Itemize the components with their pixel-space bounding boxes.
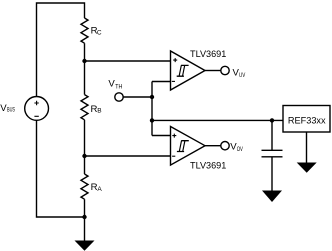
wire U2 output: [205, 145, 221, 147]
U2 plus input sign: [172, 134, 176, 138]
U2 minus input sign: [172, 155, 175, 157]
wire to U2 plus input: [152, 135, 171, 137]
svg-text:TLV3691: TLV3691: [190, 49, 226, 60]
resistor RA zigzag: [81, 174, 88, 199]
junction node A: [82, 59, 86, 63]
svg-text:A: A: [97, 186, 102, 193]
junction node C: [82, 215, 86, 219]
svg-text:TLV3691: TLV3691: [190, 161, 226, 172]
VBUS minus sign: [34, 115, 38, 117]
wire VTH circle to vertical: [123, 96, 152, 98]
VOV output terminal circle: [221, 142, 229, 150]
U1 minus input sign: [172, 80, 175, 82]
ground divider: [75, 241, 95, 251]
junction node B: [82, 154, 86, 158]
svg-text:TH: TH: [115, 83, 122, 90]
junction VTH node: [150, 95, 154, 99]
voltage source VBUS: [25, 97, 49, 121]
VBUS plus sign: [34, 101, 38, 105]
wire RC to RB: [84, 43, 86, 94]
svg-text:REF33xx: REF33xx: [288, 115, 326, 126]
wire to U1 minus input: [152, 81, 171, 83]
wire node to REF33xx input: [152, 119, 283, 121]
wire node A to U1 plus input: [85, 60, 171, 62]
VTH terminal circle: [115, 93, 123, 101]
wire RA to ground: [84, 199, 86, 240]
U1 hysteresis symbol: [177, 65, 189, 76]
resistor RB zigzag: [81, 95, 88, 120]
wire capacitor to ground: [271, 157, 273, 191]
REF33xx box: [283, 106, 330, 133]
junction capacitor node: [270, 118, 274, 122]
op-amp U2 TLV3691 triangle: [171, 127, 206, 166]
VUV output terminal circle: [221, 66, 229, 74]
svg-text:BUS: BUS: [7, 107, 15, 114]
wire node B to U2 minus input: [85, 155, 171, 157]
wire left vertical bottom: [37, 120, 85, 217]
ground capacitor: [262, 191, 282, 203]
wire U1 output: [205, 70, 221, 72]
svg-text:B: B: [97, 108, 101, 115]
svg-text:UV: UV: [239, 72, 246, 79]
wire RB to RA: [84, 120, 86, 174]
capacitor C1 plates: [262, 149, 283, 151]
wire top horizontal: [37, 3, 85, 97]
ground REF33xx: [297, 163, 317, 173]
U1 plus input sign: [173, 58, 177, 62]
svg-text:OV: OV: [237, 146, 244, 153]
svg-text:C: C: [97, 29, 102, 36]
junction REF wire node: [150, 118, 154, 122]
wire node to capacitor: [271, 120, 273, 150]
op-amp U1 TLV3691 triangle: [171, 51, 206, 90]
resistor RC zigzag: [81, 18, 88, 43]
U2 hysteresis symbol: [177, 141, 189, 152]
wire REF33xx to ground: [306, 132, 308, 163]
wire VTH vertical: [151, 82, 153, 136]
